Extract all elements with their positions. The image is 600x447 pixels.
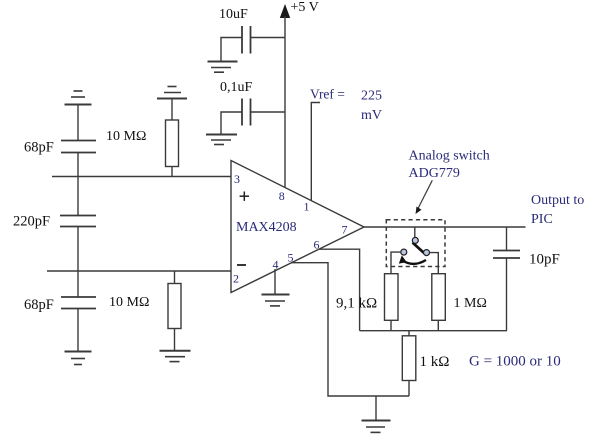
label Output to PIC xyxy=(531,193,584,227)
svg-text:MAX4208: MAX4208 xyxy=(236,220,297,235)
svg-text:1: 1 xyxy=(304,200,310,214)
wire: 10uF right lead to +5V line xyxy=(251,37,286,39)
ground G6 (0,1uF) xyxy=(206,135,237,145)
svg-text:Analog switch: Analog switch xyxy=(409,149,490,164)
wire: left contact to 9,1k top xyxy=(391,252,401,274)
ground G5 (10uF) xyxy=(208,62,238,73)
wire: 1M bottom to bus xyxy=(437,320,439,330)
svg-text:G = 1000 or 10: G = 1000 or 10 xyxy=(469,354,561,370)
svg-text:6: 6 xyxy=(314,238,320,252)
op-amp + symbol xyxy=(240,192,249,201)
capacitor C_top 68pF xyxy=(61,141,96,153)
wire: pin 4 to ground xyxy=(274,269,276,295)
wire: chain between C_mid and C_bot xyxy=(77,227,79,298)
op-amp - symbol xyxy=(237,264,246,266)
ground G8 (bottom center) xyxy=(362,421,391,433)
resistor R4 1 Mohm xyxy=(432,274,446,321)
svg-text:10 MΩ: 10 MΩ xyxy=(106,129,146,144)
wire: 0,1uF right lead to +5V line xyxy=(251,111,286,113)
svg-text:10 MΩ: 10 MΩ xyxy=(109,295,149,310)
ground G1 (inverted, top of input capacitor chain) xyxy=(65,91,92,105)
wire: 0,1uF left lead to ground xyxy=(221,112,242,135)
annotation arrow to switch xyxy=(416,180,433,214)
wire: pin 6 feedback (down to resistor bus) xyxy=(319,249,359,331)
capacitor C_mid 220pF xyxy=(60,216,96,227)
wire: chain top vertical xyxy=(77,105,79,141)
svg-text:1 MΩ: 1 MΩ xyxy=(454,296,487,311)
wire: ground stem (bottom center) xyxy=(375,396,377,421)
resistor R5 1 kohm xyxy=(402,331,416,396)
capacitor C1 10uF xyxy=(242,26,251,54)
wire: Vref to pin 1 xyxy=(311,103,320,201)
svg-text:7: 7 xyxy=(342,223,348,237)
label Vref = 225 mV xyxy=(310,87,382,124)
ground G3 (inverted, above top 10 Mohm) xyxy=(157,87,187,99)
analog switch lever xyxy=(413,243,425,254)
svg-text:68pF: 68pF xyxy=(24,140,54,156)
svg-text:225: 225 xyxy=(361,89,382,104)
wire: 9,1k bottom to bus xyxy=(390,320,392,330)
capacitor C3 10pF xyxy=(493,227,520,331)
analog switch right contact xyxy=(424,250,430,256)
svg-text:8: 8 xyxy=(279,189,285,203)
wire: 10uF left lead to ground xyxy=(221,38,242,62)
svg-text:10uF: 10uF xyxy=(219,7,248,22)
capacitor C_bot 68pF xyxy=(61,297,96,309)
wire: +input horizontal (to pin 3) xyxy=(52,176,231,178)
ground G7 (pin 4) xyxy=(262,295,290,306)
svg-text:68pF: 68pF xyxy=(24,297,54,313)
analog switch left contact xyxy=(401,249,407,255)
svg-text:Output to: Output to xyxy=(531,193,584,208)
resistor R2 10 Mohm (bottom) xyxy=(168,271,181,351)
svg-text:1 kΩ: 1 kΩ xyxy=(420,354,450,370)
+5V supply arrow xyxy=(280,4,290,188)
label Analog switch ADG779 xyxy=(409,149,490,182)
svg-text:0,1uF: 0,1uF xyxy=(220,80,253,95)
resistor R1 10 Mohm (top) xyxy=(166,99,179,177)
analog switch pole stem xyxy=(414,227,416,238)
ground G2 (bottom of input capacitor chain) xyxy=(65,352,92,365)
svg-text:10pF: 10pF xyxy=(529,252,560,268)
analog switch toggle arc arrow xyxy=(399,255,426,263)
op-amp U1 MAX4208 triangle xyxy=(231,161,364,293)
wire: chain between C_top and C_mid xyxy=(77,153,79,216)
svg-text:ADG779: ADG779 xyxy=(409,166,460,181)
svg-text:3: 3 xyxy=(234,172,240,186)
wire: chain bottom vertical xyxy=(77,309,79,352)
analog switch common contact xyxy=(412,237,418,243)
wire: -input horizontal (to pin 2) xyxy=(47,270,231,272)
ground G4 (below bottom 10 Mohm) xyxy=(160,351,191,362)
wire: pin 5 feedback (down-left long run to 1k bottom) xyxy=(291,263,409,396)
svg-text:2: 2 xyxy=(233,272,239,286)
svg-text:220pF: 220pF xyxy=(13,214,50,230)
analog switch dashed box xyxy=(386,220,445,267)
wire: output from pin 7 xyxy=(364,226,526,228)
resistor R3 9,1 kohm xyxy=(385,274,399,321)
wire: right contact to 1M top xyxy=(430,253,439,274)
svg-text:+5 V: +5 V xyxy=(291,0,319,15)
svg-text:mV: mV xyxy=(361,108,382,123)
svg-text:PIC: PIC xyxy=(531,212,553,227)
wire: feedback bus xyxy=(360,330,507,332)
capacitor C2 0,1uF xyxy=(242,99,251,126)
svg-text:Vref =: Vref = xyxy=(310,87,345,102)
svg-text:9,1 kΩ: 9,1 kΩ xyxy=(336,296,377,312)
